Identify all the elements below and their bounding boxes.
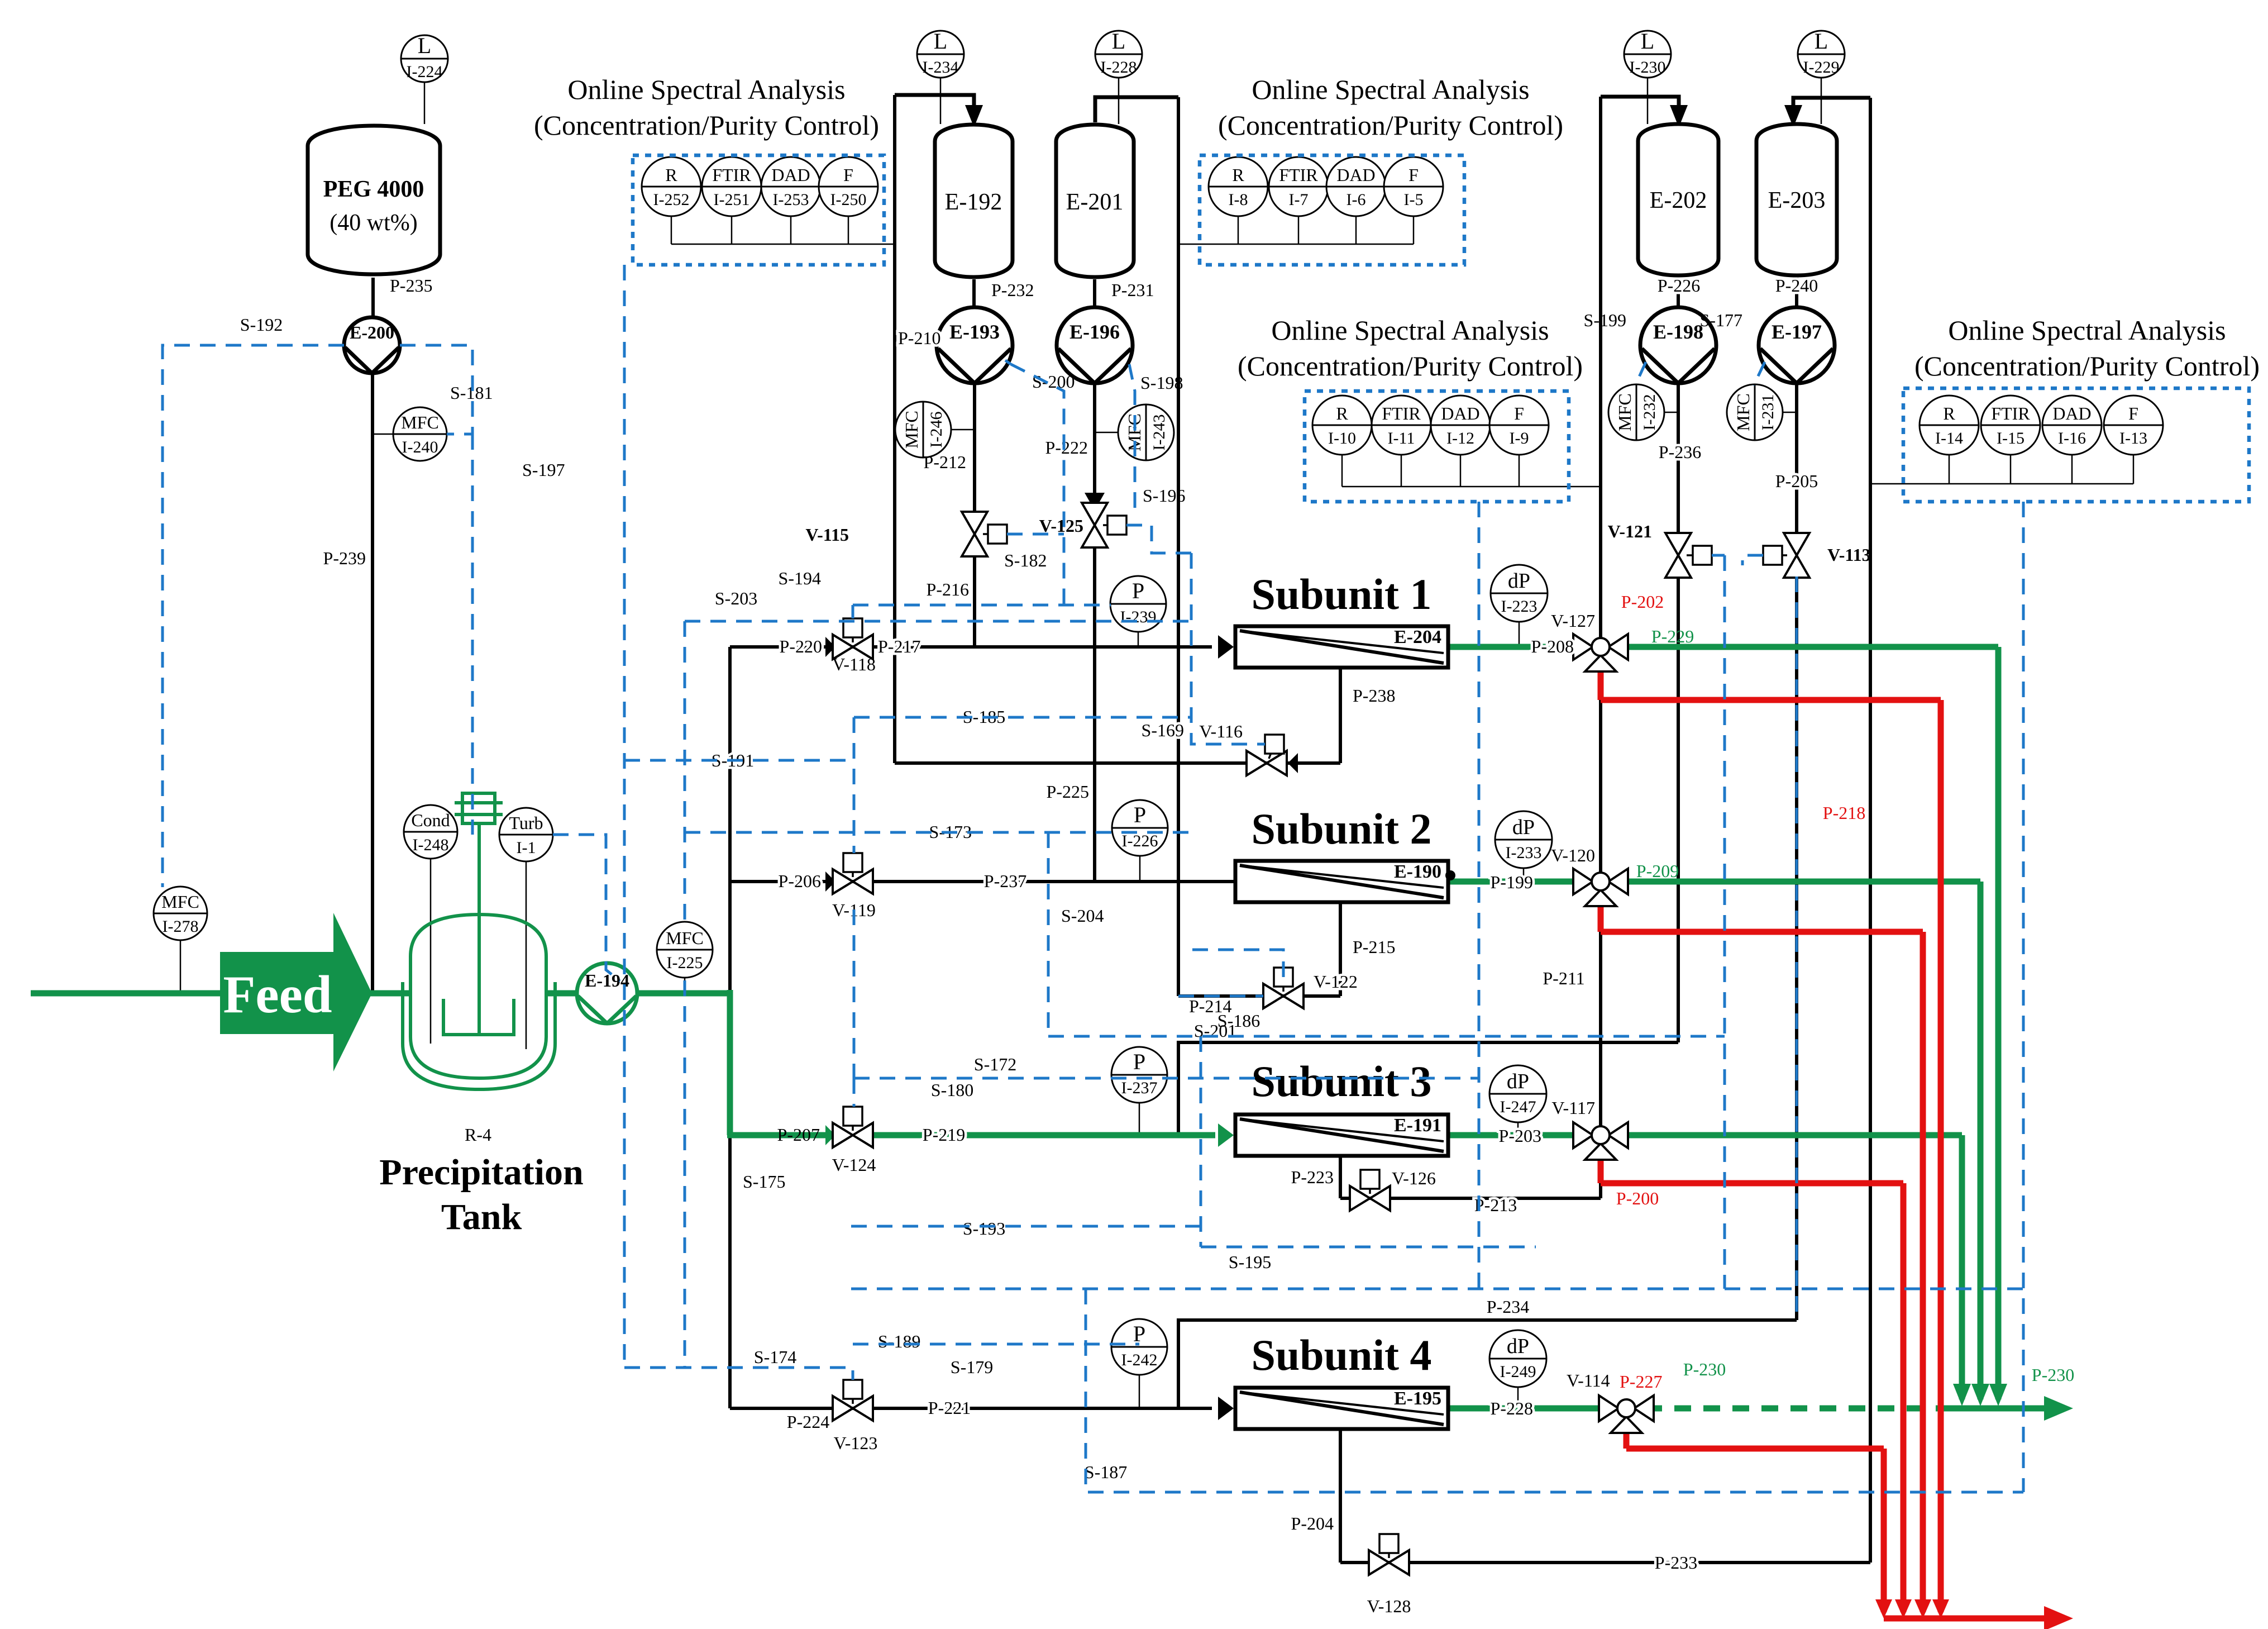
- membrane module E-195 (subunit4): [1235, 1388, 1448, 1429]
- instrument L I-234: [917, 28, 964, 78]
- wire signal E-197 to I-231: [1754, 362, 1765, 385]
- feed arrow: [220, 913, 372, 1071]
- svg-text:V-124: V-124: [832, 1155, 876, 1175]
- svg-text:I-9: I-9: [1510, 429, 1529, 447]
- svg-text:P-203: P-203: [1499, 1126, 1541, 1146]
- svg-text:I-251: I-251: [714, 190, 750, 209]
- wire signal S-185: [854, 716, 1191, 719]
- svg-text:dP: dP: [1512, 816, 1535, 839]
- wire signal S-172 drop to V-124: [853, 1078, 856, 1107]
- actuator of V-115: [983, 525, 1007, 544]
- svg-text:(Concentration/Purity Control): (Concentration/Purity Control): [1218, 109, 1563, 141]
- svg-text:I-250: I-250: [830, 190, 867, 209]
- svg-text:I-12: I-12: [1446, 429, 1474, 447]
- svg-text:I-231: I-231: [1759, 394, 1777, 431]
- wire OSA1 drop2: [731, 216, 733, 244]
- wire P-234 header: [1178, 1320, 1797, 1408]
- wire red collection header: [1884, 1616, 2044, 1622]
- instrument F I-13: [2104, 396, 2163, 455]
- wire OSA2 drop2: [1298, 216, 1300, 244]
- svg-text:F: F: [1408, 165, 1419, 185]
- wire E-201 suction P-231: [1093, 279, 1096, 307]
- wire P-225 line: [1093, 546, 1096, 882]
- svg-text:Turb: Turb: [509, 813, 543, 833]
- svg-text:P-206: P-206: [779, 871, 821, 891]
- svg-text:E-194: E-194: [585, 970, 629, 990]
- svg-text:I-16: I-16: [2058, 429, 2086, 447]
- wire red drop V-120: [1598, 902, 1604, 932]
- wire signal S-186 overlay: [1178, 995, 1263, 998]
- svg-text:V-121: V-121: [1608, 521, 1652, 541]
- svg-text:V-128: V-128: [1367, 1596, 1411, 1616]
- instrument dP I-247: [1489, 1065, 1546, 1122]
- svg-text:(40 wt%): (40 wt%): [330, 210, 417, 236]
- svg-text:I-230: I-230: [1630, 58, 1666, 77]
- arrow red arr3: [1914, 1599, 1931, 1618]
- wire signal S-194: [853, 604, 1111, 607]
- wire subunit3 drain P-223: [1339, 1156, 1342, 1198]
- instrument dP I-249: [1489, 1330, 1546, 1387]
- wire tank to pump E-194: [545, 990, 582, 997]
- svg-text:P-232: P-232: [991, 280, 1034, 300]
- svg-text:V-126: V-126: [1392, 1168, 1436, 1188]
- svg-text:P-225: P-225: [1047, 782, 1089, 802]
- wire signal S-192: [163, 345, 344, 887]
- svg-text:V-123: V-123: [834, 1433, 878, 1453]
- wire signal P-205 overlay: [1796, 577, 1798, 1318]
- svg-text:P-205: P-205: [1775, 471, 1818, 491]
- membrane module E-190 (subunit2): [1235, 861, 1448, 902]
- svg-text:(Concentration/Purity Control): (Concentration/Purity Control): [534, 109, 879, 141]
- wire E-203 suction P-240: [1795, 278, 1798, 307]
- pump E-194: [577, 963, 637, 1023]
- svg-text:P-230: P-230: [2032, 1365, 2074, 1385]
- wire P-230 solid part: [1949, 1406, 2044, 1412]
- wire stem dP I-233: [1523, 868, 1525, 882]
- wire E-202 top feed header: [1601, 97, 1679, 115]
- svg-text:Online Spectral Analysis: Online Spectral Analysis: [1271, 315, 1549, 346]
- svg-text:V-120: V-120: [1551, 845, 1595, 865]
- wire signal S-204 column: [1047, 832, 1050, 1036]
- wire stem MFC I-246: [951, 429, 975, 431]
- tank PEG 4000 storage: [308, 126, 440, 274]
- svg-text:S-197: S-197: [522, 460, 565, 480]
- svg-text:P: P: [1132, 578, 1144, 603]
- wire E-203 riser column: [1869, 98, 1872, 1563]
- svg-text:E-193: E-193: [949, 321, 1000, 343]
- wire stem MFC I-240: [373, 434, 394, 435]
- pump E-196: [1057, 307, 1133, 383]
- svg-text:PEG 4000: PEG 4000: [323, 177, 424, 202]
- wire signal S-169 column: [1191, 553, 1265, 744]
- stirrer motor: [455, 793, 503, 823]
- svg-text:DAD: DAD: [2052, 403, 2091, 423]
- wire E-201 top feed header: [1095, 97, 1178, 122]
- svg-text:I-7: I-7: [1289, 190, 1309, 209]
- wire red row4 header: [1626, 1446, 1884, 1452]
- arrow feed into E-202: [1670, 105, 1688, 127]
- svg-text:I-228: I-228: [1101, 58, 1137, 77]
- instrument dP I-223: [1491, 565, 1548, 622]
- svg-text:P-219: P-219: [923, 1125, 965, 1145]
- svg-text:P-200: P-200: [1616, 1188, 1659, 1208]
- valve V-127 (3-way): [1573, 634, 1628, 671]
- wire red drop V-117 P-200: [1598, 1154, 1604, 1183]
- wire stem P I-242: [1139, 1374, 1140, 1408]
- wire feed line: [31, 990, 223, 997]
- wire OSA3 signal bus: [1342, 486, 1601, 488]
- arrow arrow before V-119: [825, 871, 835, 892]
- instrument F I-9: [1489, 396, 1549, 455]
- svg-text:I-242: I-242: [1121, 1351, 1158, 1369]
- wire subunit1 return via V-116: [895, 761, 1340, 765]
- arrow arrow after V-116: [1288, 753, 1298, 773]
- wire subunit2 inlet line P-206/P-237: [730, 880, 1235, 883]
- instrument F I-5: [1384, 157, 1443, 216]
- wire signal subunit2 ret box: [1192, 950, 1283, 987]
- svg-text:P-229: P-229: [1651, 626, 1694, 646]
- wire subunit3 return P-213: [1340, 1197, 1601, 1200]
- svg-text:E-196: E-196: [1069, 321, 1120, 343]
- wire stem P I-237: [1139, 1102, 1140, 1135]
- actuator of V-122: [1274, 968, 1293, 992]
- wire stem dP I-223: [1519, 621, 1520, 647]
- wire stem MFC I-231: [1783, 412, 1797, 413]
- wire E-193 discharge P-212: [973, 383, 976, 513]
- svg-text:S-203: S-203: [715, 588, 757, 608]
- svg-text:P-238: P-238: [1353, 685, 1395, 706]
- wire green drop row2: [1978, 882, 1984, 1399]
- svg-text:P-223: P-223: [1291, 1167, 1334, 1187]
- arrow red arr2: [1895, 1599, 1912, 1618]
- svg-text:P-236: P-236: [1659, 442, 1701, 462]
- stirrer shaft: [478, 824, 481, 1035]
- arrow feed into E-192: [965, 105, 983, 127]
- instrument DAD I-16: [2042, 396, 2102, 455]
- svg-text:I-237: I-237: [1121, 1079, 1158, 1097]
- svg-text:E-191: E-191: [1394, 1115, 1441, 1136]
- actuator of V-119: [843, 853, 862, 877]
- wire stem MFC I-232: [1664, 412, 1678, 413]
- svg-text:S-174: S-174: [754, 1347, 796, 1367]
- instrument DAD I-6: [1326, 157, 1386, 216]
- svg-text:R: R: [1943, 403, 1955, 423]
- valve V-124: [833, 1123, 873, 1147]
- wire OSA4 signal bus: [1870, 483, 2133, 485]
- svg-text:dP: dP: [1508, 569, 1530, 593]
- svg-text:S-172: S-172: [974, 1054, 1016, 1074]
- svg-text:L: L: [418, 33, 431, 58]
- wire stem L I-234: [940, 77, 942, 124]
- svg-text:S-182: S-182: [1004, 550, 1047, 570]
- svg-text:Subunit 4: Subunit 4: [1251, 1331, 1431, 1379]
- wire OSA4 drop4: [2133, 454, 2135, 484]
- wire E-198 discharge P-236: [1677, 383, 1680, 534]
- svg-text:V-122: V-122: [1314, 971, 1358, 992]
- wire OSA2 drops: [1238, 216, 1239, 244]
- svg-text:Online Spectral Analysis: Online Spectral Analysis: [567, 74, 845, 105]
- svg-text:S-199: S-199: [1584, 310, 1626, 330]
- instrument FTIR I-7: [1269, 157, 1328, 216]
- wire E-197 discharge P-205: [1795, 383, 1798, 534]
- svg-text:I-243: I-243: [1150, 415, 1168, 451]
- arrow green arrow row1: [1989, 1384, 2007, 1406]
- membrane module E-204 (subunit1): [1235, 626, 1448, 668]
- instrument R I-8: [1209, 157, 1268, 216]
- wire signal S-172: [854, 1077, 1479, 1080]
- svg-text:E-200: E-200: [350, 322, 394, 342]
- svg-text:I-253: I-253: [773, 190, 809, 209]
- wire red riser row1: [1938, 700, 1944, 1612]
- wire stem dP I-249: [1517, 1387, 1519, 1408]
- svg-text:P-233: P-233: [1655, 1552, 1697, 1573]
- wire stem MFC I-225: [684, 978, 686, 993]
- wire P-228 segment: [1449, 1406, 1607, 1412]
- valve V-126: [1350, 1186, 1390, 1211]
- svg-text:I-223: I-223: [1501, 597, 1538, 616]
- wire stem Cond I-248: [430, 858, 432, 1044]
- svg-text:I-278: I-278: [163, 917, 199, 936]
- wire signal Turb link: [553, 835, 620, 981]
- svg-text:S-179: S-179: [951, 1357, 993, 1377]
- svg-text:V-113: V-113: [1827, 545, 1871, 565]
- instrument Turb I-1: [499, 808, 553, 861]
- wire stem L I-228: [1118, 77, 1120, 124]
- wire signal V-119 to S-172: [853, 909, 856, 1078]
- wire signal S-195 line: [851, 1288, 2023, 1290]
- valve V-118: [833, 635, 873, 659]
- svg-text:I-239: I-239: [1120, 608, 1157, 626]
- svg-text:P-204: P-204: [1291, 1513, 1334, 1533]
- svg-text:Cond: Cond: [411, 810, 450, 830]
- svg-text:Precipitation: Precipitation: [379, 1152, 583, 1193]
- wire subunit4 return P-233: [1340, 1561, 1870, 1564]
- wire main distribution column: [728, 647, 732, 1408]
- actuator of V-123: [843, 1380, 862, 1404]
- wire stem MFC I-243: [1095, 432, 1118, 434]
- pump E-198: [1640, 307, 1716, 383]
- actuator of V-118: [843, 618, 862, 642]
- svg-text:Online Spectral Analysis: Online Spectral Analysis: [1252, 74, 1529, 105]
- svg-text:P-199: P-199: [1491, 872, 1533, 892]
- svg-text:dP: dP: [1507, 1335, 1529, 1358]
- membrane module E-191 (subunit3): [1235, 1114, 1448, 1156]
- svg-text:L: L: [1641, 28, 1654, 54]
- svg-text:P-237: P-237: [984, 871, 1026, 891]
- svg-text:Subunit 1: Subunit 1: [1251, 570, 1431, 618]
- wire signal S-187 box: [1086, 1289, 2023, 1492]
- tank E-201: [1056, 125, 1134, 277]
- svg-text:F: F: [2128, 403, 2138, 423]
- instrument Cond I-248: [404, 805, 457, 859]
- valve V-117 (3-way): [1573, 1122, 1628, 1160]
- svg-text:L: L: [1815, 28, 1828, 54]
- wire P-203 segment: [1449, 1132, 1582, 1139]
- svg-text:S-196: S-196: [1143, 485, 1185, 506]
- svg-text:I-240: I-240: [402, 438, 438, 456]
- svg-text:L: L: [1112, 28, 1125, 54]
- svg-text:P-218: P-218: [1823, 803, 1865, 823]
- svg-text:P-207: P-207: [777, 1125, 820, 1145]
- svg-text:E-202: E-202: [1650, 188, 1707, 213]
- wire cross header to subunit3 inlet: [1178, 1042, 1678, 1135]
- svg-text:MFC: MFC: [666, 928, 704, 948]
- arrow green arrow row3: [1953, 1384, 1971, 1406]
- valve V-116: [1247, 751, 1287, 775]
- instrument MFC I-278: [154, 887, 207, 940]
- arrow arrow before V-118: [825, 637, 835, 657]
- svg-text:P-211: P-211: [1543, 968, 1584, 988]
- pump E-200: [344, 317, 400, 373]
- svg-text:I-234: I-234: [923, 58, 959, 77]
- instrument L I-229: [1798, 28, 1845, 78]
- wire OSA4 drop2: [2010, 454, 2012, 484]
- svg-text:R: R: [1232, 165, 1244, 185]
- svg-text:S-194: S-194: [779, 568, 821, 588]
- instrument MFC I-246: [895, 402, 951, 458]
- svg-text:P-212: P-212: [924, 452, 966, 472]
- svg-text:E-204: E-204: [1394, 627, 1441, 647]
- wire signal S-197: [471, 434, 474, 835]
- valve V-119: [833, 869, 873, 894]
- valve V-122: [1263, 984, 1303, 1008]
- svg-text:Online Spectral Analysis: Online Spectral Analysis: [1948, 315, 2226, 346]
- wire E-192 top feed header: [895, 95, 974, 115]
- wire P-205 column below V-113: [1795, 577, 1798, 1320]
- svg-text:R: R: [1336, 403, 1348, 423]
- svg-text:I-247: I-247: [1500, 1098, 1536, 1116]
- wire stem L I-229: [1821, 77, 1822, 124]
- wire signal B4 trunk: [2022, 502, 2025, 1492]
- svg-text:dP: dP: [1507, 1070, 1529, 1093]
- instrument MFC I-240: [393, 407, 447, 461]
- svg-text:P-224: P-224: [787, 1412, 829, 1432]
- actuator of V-126: [1360, 1170, 1379, 1194]
- arrow inlet arrow subunit1: [1218, 635, 1234, 659]
- wire signal right mid trunk: [1723, 555, 1726, 1289]
- instrument DAD I-12: [1431, 396, 1490, 455]
- valve V-125: [1082, 503, 1107, 547]
- wire stem Turb I-1: [526, 861, 527, 1049]
- tank E-203: [1756, 124, 1837, 275]
- actuator of V-121: [1687, 546, 1712, 565]
- wire signal I-225 column lower S-175: [684, 980, 686, 1368]
- svg-text:R-4: R-4: [465, 1125, 491, 1145]
- svg-text:E-195: E-195: [1394, 1388, 1441, 1409]
- valve V-120 (3-way): [1573, 869, 1628, 906]
- svg-text:V-117: V-117: [1551, 1098, 1595, 1118]
- wire signal S-193: [851, 1225, 1201, 1228]
- wire red drop V-114 P-227: [1624, 1427, 1630, 1449]
- OSA box 1: [633, 155, 884, 265]
- wire signal S-181: [400, 345, 472, 434]
- wire stem P I-239: [1138, 631, 1139, 647]
- svg-text:E-192: E-192: [945, 189, 1002, 215]
- svg-text:S-169: S-169: [1142, 720, 1184, 740]
- svg-text:P-228: P-228: [1491, 1398, 1533, 1418]
- svg-text:MFC: MFC: [161, 892, 199, 912]
- svg-text:FTIR: FTIR: [1279, 165, 1318, 185]
- wire P-219 segment: [873, 1132, 1215, 1139]
- svg-text:I-229: I-229: [1803, 58, 1840, 77]
- svg-text:(Concentration/Purity Control): (Concentration/Purity Control): [1914, 350, 2260, 382]
- arrow P-230 outlet arrow: [2044, 1396, 2073, 1421]
- svg-text:V-114: V-114: [1567, 1370, 1610, 1390]
- wire OSA3 drop3: [1460, 454, 1462, 487]
- svg-text:E-201: E-201: [1066, 189, 1124, 215]
- svg-text:P-231: P-231: [1111, 280, 1154, 300]
- arrow arrow before V-124: [825, 1125, 835, 1145]
- stirrer impeller: [443, 999, 514, 1035]
- instrument MFC I-231: [1727, 384, 1783, 440]
- wire signal S-191: [624, 759, 847, 762]
- wire P-230 dashed part: [1645, 1406, 1949, 1412]
- svg-text:S-189: S-189: [878, 1331, 920, 1351]
- wire OSA1 drops: [671, 216, 672, 244]
- svg-text:I-224: I-224: [407, 63, 443, 81]
- instrument P I-237: [1111, 1047, 1167, 1103]
- wire signal S-196 path: [1126, 525, 1191, 553]
- svg-text:S-177: S-177: [1700, 310, 1742, 330]
- wire signal B3 trunk: [1478, 502, 1481, 1289]
- wire signal E-193 S-200 stub: [1005, 360, 1011, 364]
- svg-text:MFC: MFC: [1733, 393, 1753, 431]
- svg-text:MFC: MFC: [401, 412, 439, 432]
- instrument FTIR I-251: [702, 157, 761, 216]
- svg-text:P-239: P-239: [323, 548, 366, 568]
- svg-text:I-14: I-14: [1935, 429, 1963, 447]
- arrow green inlet subunit3: [1218, 1123, 1234, 1147]
- arrow arrow above V-125: [1085, 493, 1105, 511]
- wire E-192 suction P-232: [972, 279, 976, 307]
- svg-text:I-233: I-233: [1506, 844, 1542, 862]
- wire subunit2 return P-214: [1178, 994, 1340, 998]
- valve V-114 (3-way): [1599, 1395, 1654, 1433]
- wire stem L I-224: [424, 81, 426, 124]
- svg-text:I-15: I-15: [1997, 429, 2025, 447]
- svg-text:P-208: P-208: [1531, 636, 1574, 656]
- wire OSA2 drop3: [1355, 216, 1357, 244]
- wire subunit4 drain P-204: [1339, 1429, 1342, 1563]
- wire subunit1 drain P-238: [1339, 668, 1342, 763]
- wire red row1 header: [1601, 697, 1941, 703]
- wire P-229 after V-127: [1620, 644, 1998, 650]
- wire red riser row3: [1901, 1183, 1907, 1612]
- svg-text:S-192: S-192: [240, 315, 283, 335]
- svg-text:I-225: I-225: [667, 954, 703, 972]
- wire signal S-200 column: [1011, 364, 1064, 605]
- pump E-193: [937, 307, 1013, 383]
- arrow red arr1: [1875, 1599, 1892, 1618]
- svg-text:I-10: I-10: [1328, 429, 1356, 447]
- instrument L I-230: [1624, 28, 1671, 78]
- svg-text:MFC: MFC: [1615, 393, 1635, 431]
- OSA box 3: [1305, 391, 1569, 502]
- wire signal subunit3 box left: [1200, 1036, 1202, 1247]
- wire red row2 header P-218: [1601, 929, 1923, 935]
- wire OSA1 signal bus: [671, 244, 895, 245]
- svg-text:L: L: [934, 28, 947, 54]
- wire red row3 header: [1601, 1180, 1903, 1187]
- wire green drop row3: [1959, 1135, 1965, 1399]
- arrow feed into E-203: [1784, 105, 1802, 127]
- wire P-203 after V-117: [1620, 1132, 1962, 1139]
- svg-text:DAD: DAD: [1441, 403, 1479, 423]
- actuator of V-116: [1265, 735, 1284, 759]
- svg-text:FTIR: FTIR: [712, 165, 751, 185]
- svg-text:P-213: P-213: [1474, 1195, 1517, 1215]
- svg-text:Feed: Feed: [223, 965, 332, 1024]
